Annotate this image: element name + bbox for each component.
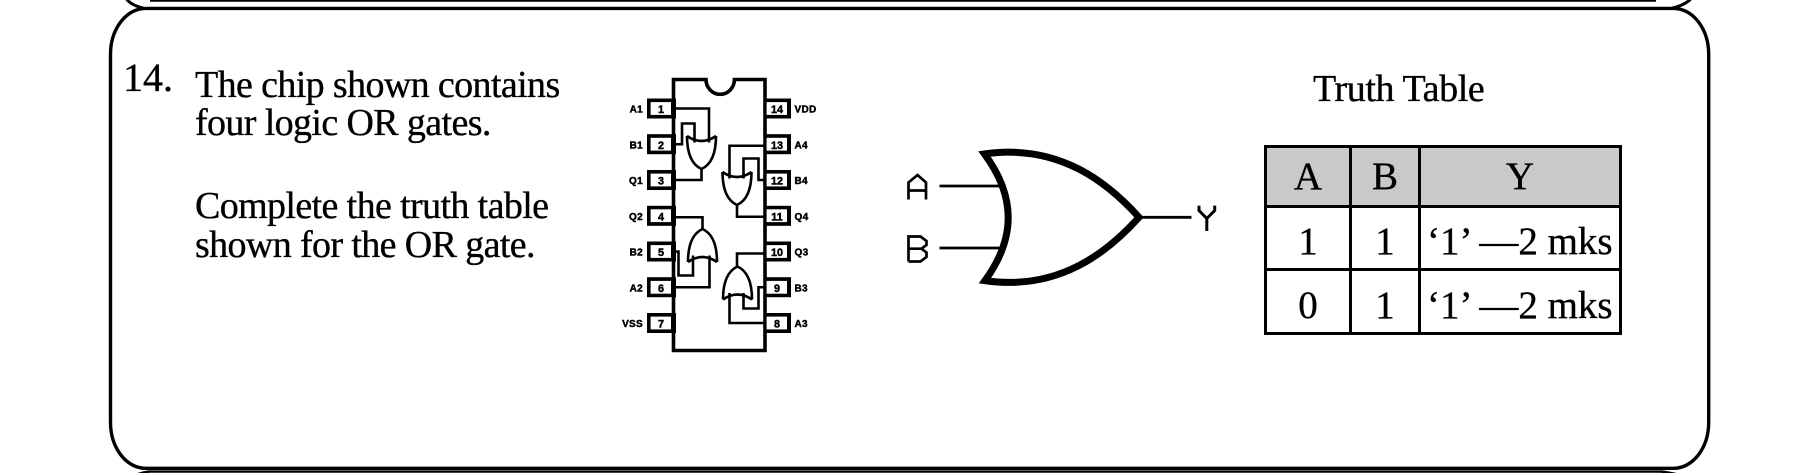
svg-text:1: 1 [658,104,664,116]
pin 6 box (A2) [647,277,676,297]
truth table title [1313,67,1484,111]
pin 14 box (VDD) [764,99,791,119]
wire pin6 (A2) to G3 input [674,256,710,288]
truth table [1264,145,1622,335]
or-gate G3 (pins 5,6 -> 4) [688,229,717,262]
question text paragraph 2 [195,187,548,265]
svg-text:5: 5 [658,247,664,259]
svg-text:VDD: VDD [795,105,817,116]
svg-text:12: 12 [771,176,783,188]
wire G4 output to pin10 (Q3) [737,254,765,267]
or-gate G2 (pins 13,12 -> 11) [723,172,752,205]
big OR gate body [985,152,1140,282]
wire pin8 (A3) to G4 input [730,293,765,323]
pin 7 box (VSS) [647,313,676,333]
svg-text:4: 4 [658,211,664,223]
pin 5 box (B2) [647,242,676,262]
svg-text:11: 11 [771,211,782,223]
wire G1 output to pin3 (Q1) [674,168,702,180]
svg-text:3: 3 [658,176,664,188]
svg-text:B2: B2 [630,248,644,259]
svg-text:B3: B3 [795,283,809,294]
wire G2 output to pin11 (Q4) [737,205,765,217]
wire G3 output to pin4 (Q2) [674,217,703,229]
output wire Y [1139,216,1192,219]
header row [1266,147,1351,207]
svg-text:A3: A3 [795,319,809,330]
pin 10 box (Q3) [764,242,791,262]
pin 11 box (Q4) [764,206,791,226]
input wire B [940,247,1005,250]
question number 14. [123,54,173,101]
svg-text:6: 6 [658,283,664,295]
next question box top edge (thin line at bottom) [150,470,1660,472]
svg-text:Q2: Q2 [629,212,643,223]
pin 12 box (B4) [764,170,791,190]
svg-text:Q3: Q3 [795,248,809,259]
svg-text:9: 9 [774,283,780,295]
svg-text:8: 8 [774,319,780,331]
svg-text:13: 13 [771,140,783,152]
svg-text:Q1: Q1 [629,176,643,187]
or-gate G4 (pins 9,8 -> 10) [723,267,752,300]
previous question box bottom edge (thin line at top) [150,0,1656,2]
wire pin2 (B1) to G1 input [674,124,695,145]
pin 13 box (A4) [764,134,791,154]
svg-text:2: 2 [658,140,664,152]
previous box bottom-right corner curve [1671,0,1693,8]
wire pin5 (B2) to G3 input [674,252,693,276]
IC chip U1 body (DIP-14 outline with notch) [674,80,766,351]
label B (input) [909,237,927,262]
pin 9 box (B3) [764,277,791,297]
svg-text:A4: A4 [795,140,809,151]
label Y (output) [1199,206,1215,231]
svg-text:Q4: Q4 [795,212,809,223]
pin 3 box (Q1) [647,170,676,190]
previous box bottom-left corner curve [125,0,144,8]
svg-text:VSS: VSS [622,319,643,330]
pin 4 box (Q2) [647,206,676,226]
wire pin9 (B3) to G4 input [744,287,765,308]
svg-text:A1: A1 [630,105,644,116]
question text paragraph 1 [195,66,560,144]
svg-text:7: 7 [658,319,664,331]
pin 1 box (A1) [647,99,676,119]
label A (input) [909,175,927,200]
wire pin13 (A4) to G2 input [730,146,765,179]
svg-text:B1: B1 [630,140,644,151]
wire pin12 (B4) to G2 input [744,159,765,181]
next box top-left corner curve [133,471,150,473]
input wire A [940,185,1005,188]
svg-text:14: 14 [771,104,783,116]
wire pin1 (A1) to G1 input [674,109,709,143]
or-gate G1 (pins 1,2 -> 3) [687,136,716,169]
svg-text:10: 10 [771,247,783,259]
pin 8 box (A3) [764,313,791,333]
svg-text:B4: B4 [795,176,809,187]
pin 2 box (B1) [647,134,676,154]
svg-text:A2: A2 [630,283,644,294]
next box top-right corner curve [1660,471,1683,473]
